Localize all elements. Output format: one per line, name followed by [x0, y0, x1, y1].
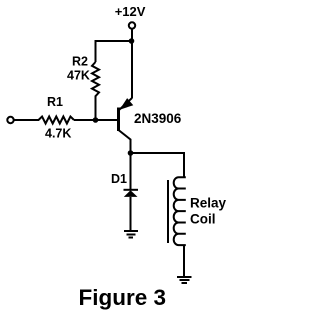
svg-text:+12V: +12V — [115, 4, 146, 19]
svg-text:2N3906: 2N3906 — [134, 111, 182, 126]
svg-text:4.7K: 4.7K — [45, 127, 71, 141]
svg-text:Coil: Coil — [190, 211, 216, 226]
svg-text:D1: D1 — [111, 172, 127, 186]
svg-text:47K: 47K — [67, 69, 90, 83]
svg-text:Figure 3: Figure 3 — [79, 285, 167, 310]
svg-text:R1: R1 — [47, 95, 63, 109]
svg-text:Relay: Relay — [190, 196, 227, 211]
svg-text:R2: R2 — [72, 55, 88, 69]
